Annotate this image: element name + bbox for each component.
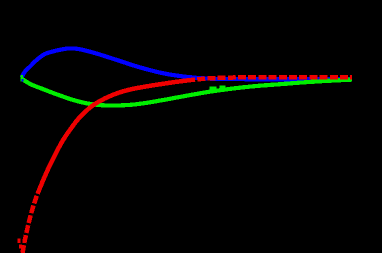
green dash artifact 2: [220, 85, 226, 88]
blue curve: [22, 48, 353, 79]
green dash artifact 1: [210, 86, 217, 89]
red curve (dashed): [23, 77, 353, 253]
red dash fragment B: [19, 245, 22, 249]
green curve: [22, 79, 352, 106]
green curve start blob: [20, 75, 23, 82]
blue dot at start: [21, 79, 23, 81]
red curve solid middle section: [40, 80, 192, 189]
red dash fragment A: [17, 239, 20, 244]
